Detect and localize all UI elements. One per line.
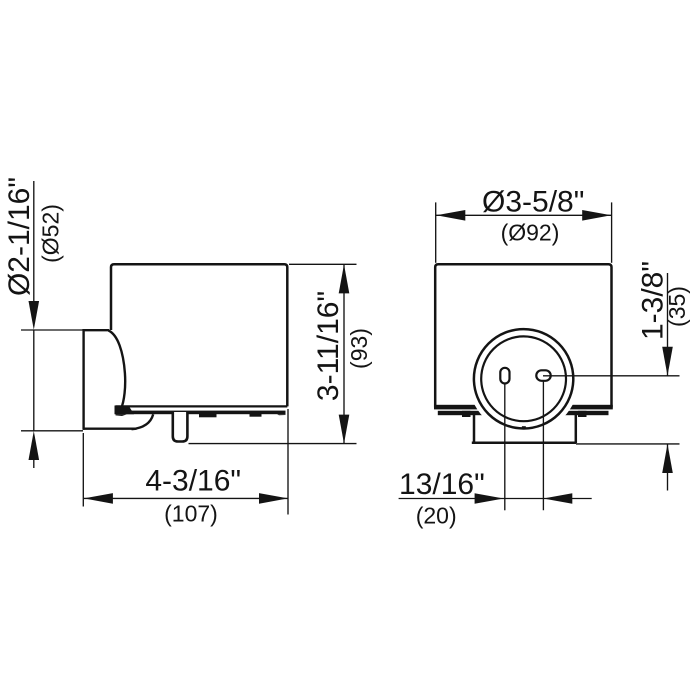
svg-text:4-3/16": 4-3/16" — [145, 465, 241, 498]
svg-text:Ø2-1/16": Ø2-1/16" — [3, 177, 36, 296]
svg-text:(107): (107) — [164, 501, 218, 527]
svg-text:(Ø52): (Ø52) — [38, 204, 64, 263]
svg-text:(35): (35) — [664, 286, 690, 327]
svg-text:(20): (20) — [416, 503, 457, 529]
svg-text:(Ø92): (Ø92) — [501, 220, 560, 246]
svg-text:13/16": 13/16" — [399, 468, 485, 501]
svg-text:3-11/16": 3-11/16" — [312, 291, 345, 401]
svg-text:Ø3-5/8": Ø3-5/8" — [482, 186, 584, 219]
svg-text:(93): (93) — [346, 328, 372, 369]
